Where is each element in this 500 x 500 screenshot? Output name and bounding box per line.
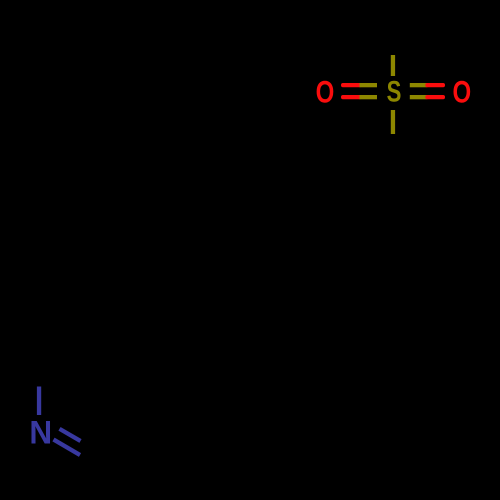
svg-text:S: S [387,75,402,109]
bond S=O right, upper line, O-side red half [425,83,445,87]
svg-text:N: N [29,414,52,451]
bond N=C2 ring double bond, main line N-side half [54,440,81,456]
bond S=O left, lower line, O-side red half [341,95,362,99]
pyridine nitrogen region [29,387,80,456]
bond S=O right, upper line, S-side olive half [410,83,428,87]
bond N=C2 ring double bond, inner line N-side half [60,429,81,441]
bond S=O left, lower line, S-side olive half [360,95,378,99]
svg-text:O: O [316,75,335,110]
bond S-C(aryl), S-side visible half [391,110,395,134]
sulfonyl group S(=O)(=O)CH3 [316,55,472,134]
bond S=O right, lower line, S-side olive half [410,95,428,99]
bond S=O right, lower line, O-side red half [425,95,445,99]
bond S=O left, upper line, O-side red half [341,83,362,87]
bond S=O left, upper line, S-side olive half [360,83,378,87]
svg-text:O: O [453,75,472,110]
bond N-C6 ring bond, N-side visible half [37,387,41,416]
bond S-CH3 (methyl), S-side visible half [391,55,395,76]
